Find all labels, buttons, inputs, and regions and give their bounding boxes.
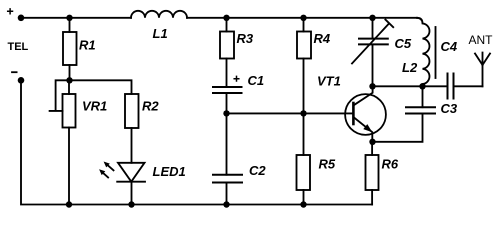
- terminal minus: [12, 72, 24, 83]
- wire: junction to R5: [303, 113, 305, 155]
- antenna ANT: [469, 33, 494, 86]
- svg-text:C3: C3: [441, 101, 458, 116]
- wire: junction to R2 top: [70, 80, 132, 94]
- svg-text:R3: R3: [237, 31, 254, 46]
- node: L2 bottom / C3 junction: [419, 83, 425, 89]
- svg-text:C2: C2: [249, 163, 266, 178]
- transistor VT1: [317, 74, 386, 142]
- svg-text:VR1: VR1: [82, 99, 107, 114]
- wire top rail: L1 to L2 corner: [187, 17, 417, 19]
- capacitor C3: [406, 86, 458, 116]
- node: C1/C2/base junction: [223, 110, 229, 116]
- svg-text:LED1: LED1: [153, 164, 186, 179]
- capacitor C1: [213, 73, 264, 93]
- node: top rail / R1: [66, 15, 72, 21]
- wire: R5 to rail: [303, 190, 305, 205]
- wire: C4 to antenna: [454, 85, 483, 87]
- resistor R4: [297, 18, 331, 59]
- svg-text:C5: C5: [395, 36, 412, 51]
- wire: C1 to base node: [226, 93, 228, 113]
- svg-text:TEL: TEL: [8, 41, 29, 53]
- inductor L1: [131, 11, 187, 41]
- svg-text:R4: R4: [314, 31, 331, 46]
- wire: VR1 bottom to rail: [68, 128, 70, 205]
- resistor R2: [125, 94, 159, 128]
- resistor R3: [220, 18, 254, 59]
- capacitor C4: [441, 39, 458, 99]
- wire: R4 to base node: [303, 59, 305, 114]
- node: collector junction: [369, 83, 375, 89]
- wire: R3 to C1: [226, 59, 228, 88]
- svg-text:VT1: VT1: [317, 74, 341, 89]
- capacitor C5 trimmer: [352, 18, 412, 87]
- wire: C3 bottom to emitter: [373, 114, 423, 142]
- node: top rail / R3: [223, 15, 229, 21]
- resistor R1: [63, 18, 96, 81]
- node: top rail / C5: [369, 15, 375, 21]
- node: rail / C2: [223, 201, 229, 207]
- svg-text:R5: R5: [319, 157, 336, 172]
- wire: minus terminal down and bottom rail: [21, 80, 372, 204]
- resistor R6: [366, 142, 399, 190]
- svg-text:R1: R1: [79, 38, 96, 53]
- svg-text:C1: C1: [248, 73, 265, 88]
- wire top rail: plus terminal to L1: [21, 17, 131, 19]
- svg-text:R6: R6: [382, 157, 399, 172]
- LED LED1: [99, 162, 186, 182]
- svg-text:ANT: ANT: [469, 33, 494, 47]
- wire: collector node to C4: [373, 85, 448, 87]
- node: R4/R5/base junction: [300, 110, 306, 116]
- svg-text:L2: L2: [402, 60, 418, 75]
- node: rail / LED1: [128, 201, 134, 207]
- wire: C2 to rail: [226, 183, 228, 205]
- svg-text:R2: R2: [142, 99, 159, 114]
- node: R1/VR1/R2/wiper junction: [66, 77, 72, 83]
- wire: R6 to rail: [371, 190, 373, 205]
- wire: R2 to LED1: [131, 128, 133, 163]
- wire: base wire to VT1: [227, 112, 354, 114]
- node: top rail / R4: [300, 15, 306, 21]
- node: rail / R5: [300, 201, 306, 207]
- resistor R5: [297, 155, 336, 190]
- capacitor C2: [213, 163, 266, 183]
- inductor L2: [402, 18, 436, 87]
- terminal plus: [8, 9, 25, 21]
- node: rail / VR1: [66, 201, 72, 207]
- node: emitter junction: [369, 139, 375, 145]
- svg-text:L1: L1: [153, 26, 168, 41]
- wire: junction down to C2: [226, 113, 228, 174]
- wire: LED1 to rail: [131, 182, 133, 205]
- svg-text:C4: C4: [441, 39, 458, 54]
- potentiometer VR1: [50, 80, 108, 127]
